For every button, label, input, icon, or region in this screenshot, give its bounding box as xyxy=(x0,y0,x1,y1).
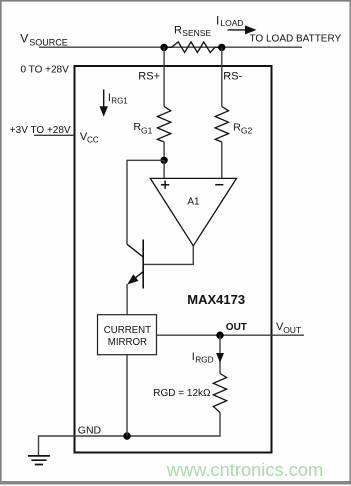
wire RGD bottom to GND rail xyxy=(127,412,220,436)
svg-text:+3V TO +28V: +3V TO +28V xyxy=(10,125,71,136)
svg-text:GND: GND xyxy=(78,425,102,437)
svg-text:0 TO +28V: 0 TO +28V xyxy=(21,64,70,75)
wire op-amp output to transistor base xyxy=(143,246,193,265)
wire RS- branch xyxy=(221,47,223,106)
svg-text:MAX4173: MAX4173 xyxy=(187,292,245,307)
svg-text:SOURCE: SOURCE xyxy=(29,38,68,48)
node: GND junction xyxy=(123,432,130,439)
svg-text:OUT: OUT xyxy=(226,322,247,333)
svg-text:G1: G1 xyxy=(141,125,153,135)
wire junction to collector xyxy=(127,160,164,244)
svg-text:RS-: RS- xyxy=(223,70,242,82)
svg-text:I: I xyxy=(216,13,219,27)
svg-text:RGD: RGD xyxy=(195,354,213,364)
IC outline box MAX4173 xyxy=(75,66,272,453)
svg-text:RGD = 12kΩ: RGD = 12kΩ xyxy=(153,388,211,399)
wire VCC lead xyxy=(34,134,75,136)
wire: VSOURCE top rail xyxy=(39,46,302,48)
wire GND rail to ground xyxy=(39,436,128,456)
current arrow ILOAD xyxy=(228,29,247,31)
svg-text:CC: CC xyxy=(87,136,99,145)
wire RG2 bottom to op-amp minus input xyxy=(221,142,223,178)
node: RSENSE right junction xyxy=(218,44,225,51)
node: RG1 / +input junction xyxy=(160,157,167,164)
node: OUT junction xyxy=(216,332,223,339)
svg-text:RG1: RG1 xyxy=(111,96,128,105)
current mirror block xyxy=(98,315,157,355)
wire RG1 bottom to junction xyxy=(163,142,165,160)
node: RSENSE left junction xyxy=(160,44,167,51)
current arrow IRGD xyxy=(219,335,221,373)
svg-text:R: R xyxy=(174,25,182,37)
svg-text:V: V xyxy=(20,32,28,46)
transistor Q1 xyxy=(142,240,144,289)
svg-text:TO LOAD BATTERY: TO LOAD BATTERY xyxy=(250,34,342,45)
svg-text:www.cntronics.com: www.cntronics.com xyxy=(166,459,323,480)
resistor RGD xyxy=(213,374,226,413)
svg-text:CURRENT: CURRENT xyxy=(104,325,151,336)
svg-text:RS+: RS+ xyxy=(138,70,160,82)
svg-text:G2: G2 xyxy=(241,126,253,136)
resistor RSENSE xyxy=(164,42,222,53)
ground symbol xyxy=(28,456,50,465)
wire RS+ branch xyxy=(163,47,165,106)
resistor RG1 xyxy=(157,107,170,143)
svg-text:MIRROR: MIRROR xyxy=(108,337,147,348)
svg-text:LOAD: LOAD xyxy=(220,18,243,28)
op-amp A1 xyxy=(150,178,236,245)
resistor RG2 xyxy=(215,107,228,143)
wire junction to op-amp plus input xyxy=(163,160,165,178)
svg-text:A1: A1 xyxy=(187,196,200,207)
wire OUT rail xyxy=(157,334,305,336)
wire emitter to current mirror xyxy=(126,284,128,315)
wire current mirror to GND rail xyxy=(126,355,128,436)
svg-text:SENSE: SENSE xyxy=(182,28,211,38)
current arrow IRG1 xyxy=(103,89,105,108)
svg-text:OUT: OUT xyxy=(283,325,301,335)
